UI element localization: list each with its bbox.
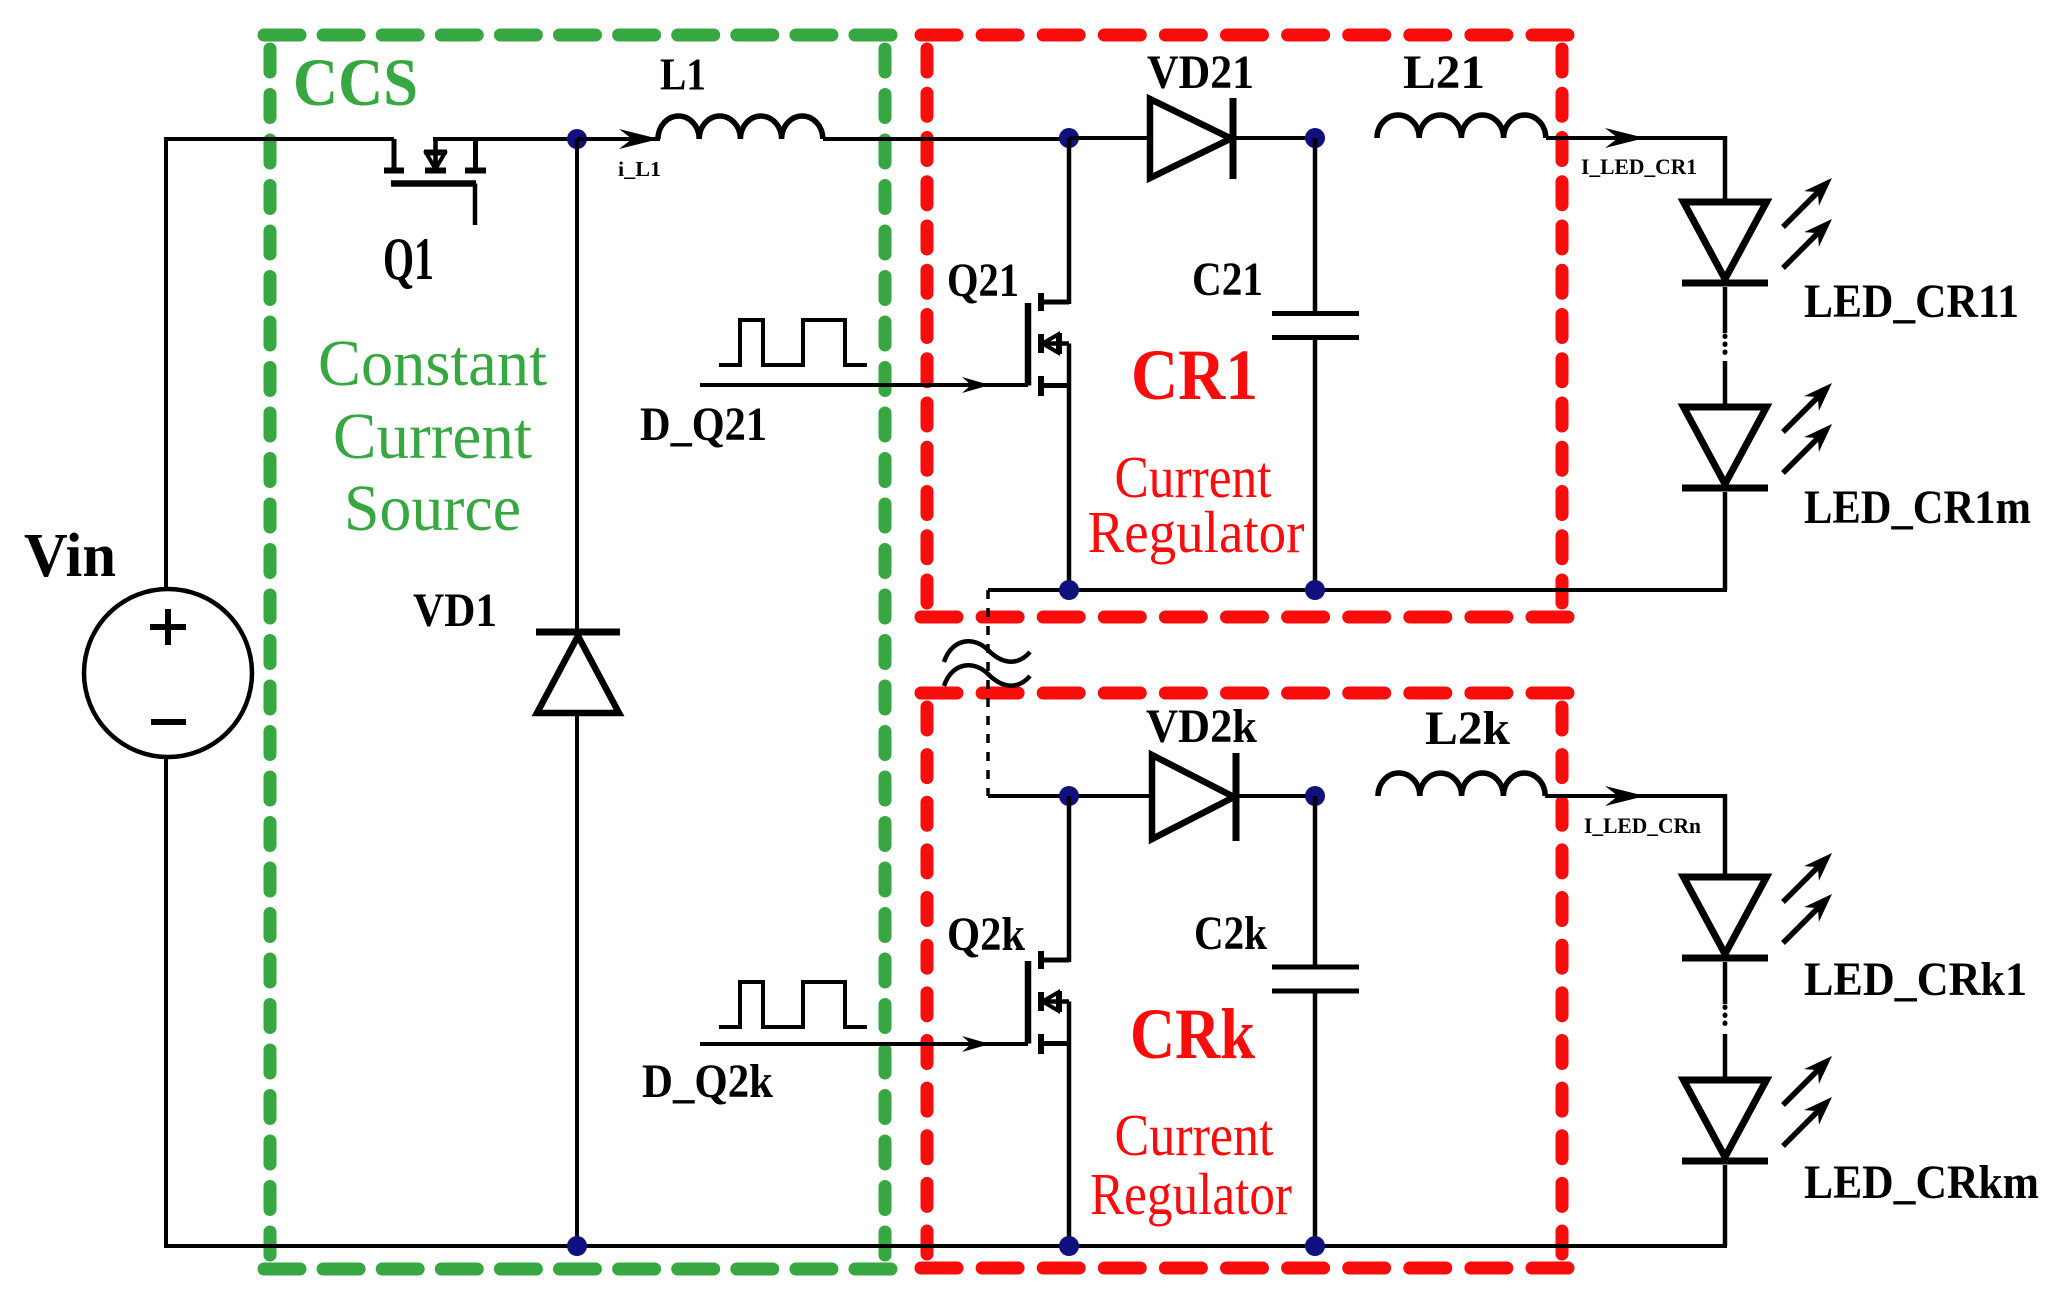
gate drive wire D_Q2k with arrow (700, 1036, 1028, 1052)
capacitor C2k (1272, 967, 1359, 991)
LED_CR11 light arrows (1783, 178, 1832, 268)
label VD1 (413, 584, 497, 637)
label Q1 (383, 226, 434, 292)
svg-text:C21: C21 (1192, 253, 1263, 306)
svg-text:CCS: CCS (293, 44, 418, 120)
label C21 (1192, 253, 1263, 306)
wire node C down to C21 (1313, 138, 1318, 311)
diode VD1 (536, 632, 620, 713)
wire VD21 to node C (1233, 136, 1315, 140)
svg-text:I_LED_CR1: I_LED_CR1 (1581, 154, 1697, 179)
diode VD21 (1150, 98, 1233, 179)
capacitor C21 (1272, 314, 1359, 338)
diode VD2k (1152, 753, 1236, 841)
wire L1 to node B (823, 137, 1069, 141)
LED_CRkm light arrows (1783, 1056, 1832, 1146)
label i_L1 (618, 157, 661, 181)
LED LED_CR1m (1682, 407, 1768, 488)
LED LED_CR11 (1682, 202, 1768, 283)
label Vin (24, 522, 116, 590)
wire Vin top to Q1 source (164, 137, 394, 591)
wire L2k to LED chain 2 with arrow (1545, 786, 1727, 806)
svg-text:Regulator: Regulator (1088, 499, 1305, 565)
wire VD2k to node E (1235, 794, 1315, 798)
wire LED_CRk1 to dotted (1723, 962, 1728, 1004)
wire bottom rail (164, 1244, 1727, 1248)
PWM waveform D_Q2k (719, 982, 867, 1027)
wire CRk input (988, 794, 1152, 798)
node D junction (1059, 786, 1079, 806)
inductor L1 (658, 116, 823, 139)
transistor Q2k (MOSFET) (1028, 796, 1069, 1054)
wire CR1 bottom rail (988, 588, 1727, 592)
CRk region dashed border (red) (921, 693, 1568, 1268)
svg-text:VD1: VD1 (413, 584, 497, 637)
wire VD1 to bottom rail (575, 713, 579, 1246)
svg-text:LED_CR11: LED_CR11 (1804, 275, 2019, 328)
junction VD1 bottom (567, 1236, 587, 1256)
svg-text:Vin: Vin (24, 522, 116, 590)
node A junction (567, 129, 587, 149)
label LED_CRk1 (1804, 953, 2027, 1006)
wire LED_CR1m to CR1 rail (1723, 492, 1728, 590)
voltage source Vin circle (84, 589, 252, 757)
dashed wire CR1 rail down to CRk (986, 590, 990, 796)
gate drive wire D_Q21 with arrow (700, 377, 1028, 393)
wire L21 to LED chain 1 with arrow (1546, 128, 1727, 148)
label VD21 (1147, 46, 1254, 99)
CR1 region dashed border (red) (921, 35, 1568, 617)
wire LED chain 1 down (1723, 136, 1728, 202)
label I_LED_CRn (1584, 813, 1701, 838)
label Current Regulator CRk (red) (1090, 1102, 1292, 1227)
svg-text:C2k: C2k (1194, 907, 1267, 960)
label LED_CRkm (1804, 1156, 2039, 1209)
wire LED_CRkm to bottom rail (1723, 1165, 1728, 1246)
svg-text:L2k: L2k (1425, 702, 1510, 755)
transistor Q21 (MOSFET) (1028, 138, 1069, 396)
svg-text:D_Q21: D_Q21 (640, 398, 767, 451)
inductor L2k (1378, 773, 1545, 796)
wire LED_CR11 to dotted (1723, 287, 1728, 333)
LED LED_CRkm (1682, 1080, 1768, 1161)
wire node B to VD21 (1069, 136, 1150, 140)
svg-text:I_LED_CRn: I_LED_CRn (1584, 813, 1701, 838)
junction Q2k rail (1059, 1236, 1079, 1256)
dotted wire chain 1 (1723, 336, 1728, 359)
LED LED_CRk1 (1682, 877, 1768, 958)
label L1 (660, 50, 706, 100)
dotted wire chain 2 (1723, 1007, 1728, 1031)
wire node E down to C2k (1313, 796, 1318, 965)
LED_CRk1 light arrows (1783, 853, 1832, 943)
Vin plus sign (150, 609, 186, 645)
svg-text:CRk: CRk (1130, 994, 1255, 1074)
svg-text:CR1: CR1 (1131, 335, 1258, 415)
svg-text:LED_CRkm: LED_CRkm (1804, 1156, 2039, 1209)
label D_Q2k (642, 1055, 773, 1108)
LED_CR1m light arrows (1783, 383, 1832, 473)
wire Vin bottom (164, 757, 168, 1248)
junction C21 rail (1305, 580, 1325, 600)
node B junction (1059, 128, 1079, 148)
svg-text:L1: L1 (660, 50, 706, 100)
junction C2k rail (1305, 1236, 1325, 1256)
wire C2k down to bottom rail (1313, 993, 1318, 1246)
label Q2k (947, 908, 1025, 961)
svg-text:Q21: Q21 (947, 254, 1019, 307)
svg-text:VD2k: VD2k (1146, 700, 1257, 753)
label D_Q21 (640, 398, 767, 451)
label CCS (293, 44, 418, 120)
svg-text:Constant: Constant (318, 327, 547, 400)
wire dotted to LED_CR1m (1723, 361, 1728, 407)
wire C21 down to CR1 rail (1313, 340, 1318, 590)
wire node A down to VD1 (575, 139, 579, 632)
label VD2k (1146, 700, 1257, 753)
svg-text:D_Q2k: D_Q2k (642, 1055, 773, 1108)
label Q21 (947, 254, 1019, 307)
svg-text:LED_CR1m: LED_CR1m (1804, 481, 2031, 534)
svg-text:L21: L21 (1403, 46, 1485, 99)
Vin minus sign (151, 719, 186, 725)
label LED_CR1m (1804, 481, 2031, 534)
svg-text:Q1: Q1 (383, 226, 434, 292)
junction Q21 rail (1059, 580, 1079, 600)
label L2k (1425, 702, 1510, 755)
node C junction (1305, 128, 1325, 148)
CCS region dashed border (green) (264, 35, 891, 1269)
label CR1 (red) (1131, 335, 1258, 415)
PWM waveform D_Q21 (719, 320, 867, 365)
svg-text:Current: Current (1115, 1102, 1275, 1168)
svg-text:Q2k: Q2k (947, 908, 1025, 961)
label I_LED_CR1 (1581, 154, 1697, 179)
label CRk (red) (1130, 994, 1255, 1074)
inductor L21 (1377, 115, 1546, 138)
wire break symbol (944, 641, 1030, 686)
label C2k (1194, 907, 1267, 960)
wire Q21 source down to CR1 rail (1067, 386, 1072, 591)
label Constant Current Source (green) (318, 327, 547, 545)
svg-text:i_L1: i_L1 (618, 157, 661, 181)
svg-text:Source: Source (344, 472, 521, 545)
label Current Regulator CR1 (red) (1088, 444, 1305, 565)
wire Q1 drain to node A (433, 137, 578, 141)
wire dotted to LED_CRkm (1723, 1034, 1728, 1080)
wire LED chain 2 down (1723, 794, 1728, 877)
node E junction (1305, 786, 1325, 806)
label L21 (1403, 46, 1485, 99)
wire Q2k source down to bottom rail (1067, 1044, 1072, 1247)
transistor Q1 (p-MOSFET) (384, 139, 486, 225)
svg-text:Regulator: Regulator (1090, 1161, 1292, 1227)
svg-text:VD21: VD21 (1147, 46, 1254, 99)
label LED_CR11 (1804, 275, 2019, 328)
svg-text:Current: Current (333, 400, 532, 473)
wire node A to L1 with current arrow (577, 129, 660, 149)
svg-text:LED_CRk1: LED_CRk1 (1804, 953, 2027, 1006)
